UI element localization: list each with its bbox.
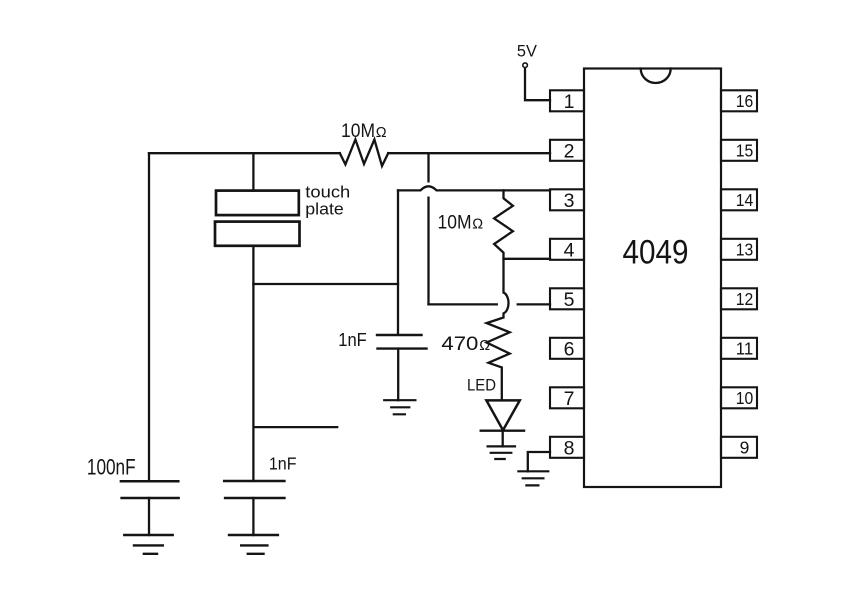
pin 12 box [721, 288, 757, 309]
capacitor C2 1nF plates [377, 335, 427, 349]
pin 14 box [721, 189, 757, 210]
IC U1 4049 body [584, 69, 721, 488]
wire: vertical branch from pin2 rail down to pin5 rail (gap at hop) [427, 153, 429, 304]
pin 10 box [721, 387, 757, 408]
pin 7 box [550, 387, 584, 408]
wire: R2 bottom to pin 4 [504, 258, 551, 260]
svg-text:470: 470 [441, 334, 478, 355]
svg-text:8: 8 [564, 437, 575, 459]
pin 13 box [721, 239, 757, 260]
svg-text:Ω: Ω [376, 125, 387, 141]
svg-text:5: 5 [564, 289, 575, 311]
pin 16 box [721, 90, 757, 111]
svg-text:4049: 4049 [623, 234, 689, 272]
pin 9 box [721, 437, 757, 458]
pin 4 box [550, 239, 584, 260]
pin 2 box [550, 140, 584, 161]
svg-text:16: 16 [736, 91, 754, 111]
svg-text:6: 6 [564, 338, 575, 360]
svg-text:3: 3 [564, 190, 575, 212]
svg-text:15: 15 [736, 141, 754, 161]
touch plate upper electrode [216, 191, 299, 216]
svg-text:plate: plate [305, 200, 344, 219]
pin 11 box [721, 338, 757, 359]
wire: C1 to ground [148, 498, 150, 535]
ground under LED [488, 446, 515, 459]
wire: vertical from pin3 rail down to capacitor C2 [397, 190, 399, 334]
svg-text:100nF: 100nF [87, 455, 136, 480]
LED D1 cathode bar [481, 430, 524, 432]
svg-text:1: 1 [564, 91, 575, 113]
wire: pin 3 rail with hop over vertical branch [398, 186, 550, 190]
wire: 5V terminal to pin 1 [525, 69, 550, 101]
LED D1 triangle [486, 400, 519, 430]
power terminal 5V circle [523, 63, 528, 68]
wire: resistor R1 to pin 2 [388, 152, 550, 154]
svg-text:12: 12 [736, 289, 754, 309]
pin 3 box [550, 189, 584, 210]
svg-text:10M: 10M [341, 120, 375, 142]
pin 15 box [721, 140, 757, 161]
svg-text:7: 7 [564, 388, 575, 410]
pin 6 box [550, 338, 584, 359]
ground at pin 8 [518, 471, 548, 485]
wire: touch plate bottom to vertical (T junction) [253, 283, 398, 285]
svg-text:1nF: 1nF [338, 330, 367, 350]
svg-text:10: 10 [736, 388, 754, 408]
capacitor C1 100nF plates [121, 481, 179, 498]
wire: C2 to ground [397, 349, 399, 401]
wire: LED to ground [502, 431, 504, 447]
resistor 10M R1 (horizontal) [340, 140, 388, 167]
svg-text:4: 4 [564, 239, 575, 261]
IC U1 notch [641, 69, 671, 84]
pin 1 box [550, 90, 584, 111]
wire: top rail to touch plate [252, 153, 254, 190]
svg-text:11: 11 [736, 339, 754, 359]
svg-text:5V: 5V [517, 42, 537, 60]
touch plate lower electrode [215, 222, 300, 246]
svg-text:14: 14 [736, 190, 754, 210]
svg-text:2: 2 [564, 140, 575, 162]
wire: pin 5 rail (gap at hop) [429, 303, 551, 305]
capacitor C3 1nF plates [224, 481, 284, 498]
svg-text:LED: LED [467, 377, 496, 395]
resistor 10M R2 (vertical) with hop over pin5 rail and resistor 470 R3 chain [487, 190, 513, 400]
ground under C3 [229, 535, 278, 554]
svg-text:1nF: 1nF [269, 453, 297, 473]
ground under C2 [384, 400, 415, 414]
wire: pin 8 to ground [528, 452, 550, 471]
svg-text:10M: 10M [438, 212, 472, 234]
wire: top rail from left branch to resistor [149, 152, 340, 154]
svg-text:9: 9 [740, 438, 750, 458]
pin 8 box [550, 437, 584, 458]
svg-text:Ω: Ω [472, 217, 483, 233]
ground under C1 [124, 535, 172, 554]
svg-text:Ω: Ω [479, 338, 490, 354]
wire: touch plate down to capacitor C3 [252, 246, 254, 481]
pin 5 box [550, 288, 584, 309]
svg-text:13: 13 [736, 240, 754, 260]
wire: left vertical rail down to capacitor C1 [148, 153, 150, 481]
wire: stub right of C3 [254, 426, 337, 428]
wire: C3 to ground [252, 498, 254, 535]
